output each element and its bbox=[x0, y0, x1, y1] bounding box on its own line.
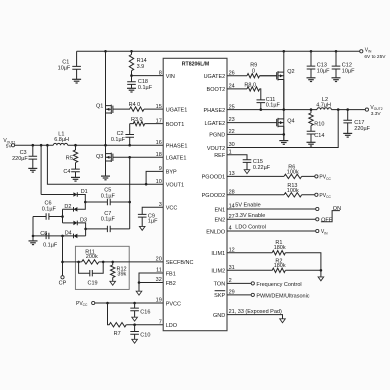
resistor R1 180k bbox=[227, 240, 321, 270]
svg-text:CP: CP bbox=[59, 281, 67, 287]
pin 16 PHASE1 label bbox=[156, 140, 188, 150]
inductor L1 6.8uH bbox=[53, 131, 69, 145]
capacitor C17 220uF bbox=[343, 110, 370, 134]
svg-text:LDO Control: LDO Control bbox=[235, 225, 266, 231]
resistor R8 0 bbox=[227, 83, 261, 100]
ground (C17) bbox=[343, 133, 352, 137]
capacitor C10 bbox=[130, 325, 150, 340]
svg-text:BOOT2: BOOT2 bbox=[207, 87, 226, 93]
node LDO-C10 bbox=[133, 323, 136, 326]
svg-text:Q2: Q2 bbox=[287, 69, 294, 75]
terminal VOUT1 5V bbox=[3, 138, 15, 150]
svg-text:VOUT1: VOUT1 bbox=[3, 138, 15, 144]
wire FB2 pin 32 bbox=[139, 283, 163, 292]
svg-text:3.3V Enable: 3.3V Enable bbox=[235, 213, 265, 219]
svg-text:LDO: LDO bbox=[166, 323, 178, 329]
svg-text:VCC: VCC bbox=[166, 206, 178, 212]
pin 4 ENLDO label bbox=[206, 226, 231, 236]
node VOUT2 pin tap bbox=[337, 108, 340, 111]
switch ON position bbox=[321, 206, 341, 222]
pin 2 TON label bbox=[214, 278, 232, 288]
wire VIN rail bbox=[77, 50, 361, 52]
svg-text:VIN: VIN bbox=[166, 74, 175, 80]
wire TON pin 2 bbox=[227, 282, 302, 288]
resistor R5 bbox=[66, 145, 78, 169]
svg-text:D4: D4 bbox=[65, 230, 72, 236]
node CP tap bbox=[61, 235, 64, 238]
ground (FB divider) bbox=[136, 291, 142, 295]
wire Q2 drain bbox=[283, 51, 285, 109]
svg-text:10µF: 10µF bbox=[342, 68, 355, 74]
node VOUT1 pin feed bbox=[46, 144, 49, 147]
diode D4 bbox=[33, 230, 86, 238]
wire SKP pin 29 bbox=[227, 293, 310, 299]
svg-text:PHASE2: PHASE2 bbox=[203, 108, 225, 114]
wire LGATE2 pin 23 bbox=[227, 122, 277, 124]
resistor R10 bbox=[309, 110, 325, 132]
wire Q1 drain from rail bbox=[105, 51, 107, 145]
svg-text:0.1µF: 0.1µF bbox=[111, 137, 126, 143]
svg-text:ILIM2: ILIM2 bbox=[211, 269, 225, 275]
svg-text:0.1µF: 0.1µF bbox=[101, 217, 116, 223]
terminal PVCC left bbox=[76, 301, 95, 307]
ground (C14) bbox=[307, 142, 316, 146]
pin 9 BYP label bbox=[159, 166, 177, 176]
svg-text:D2: D2 bbox=[64, 204, 71, 210]
node FB junction bbox=[138, 281, 141, 284]
terminal CP bbox=[59, 276, 67, 287]
svg-text:C10: C10 bbox=[140, 333, 150, 339]
node C6 tap bbox=[61, 215, 64, 218]
wire Q4 drain bbox=[283, 110, 285, 141]
wire CP vertical bbox=[62, 236, 64, 276]
svg-text:220µF: 220µF bbox=[354, 126, 370, 132]
pin 30 VOUT2 label bbox=[207, 142, 235, 152]
node PVCC-R7 bbox=[106, 302, 109, 305]
diode D1 bbox=[41, 189, 88, 202]
svg-text:0.1µF: 0.1µF bbox=[266, 102, 281, 108]
node PVCC-C16 bbox=[133, 302, 136, 305]
wire Q4 source bbox=[283, 126, 285, 140]
svg-text:D1: D1 bbox=[81, 189, 88, 195]
wire LGATE1 to C5/C7 bbox=[129, 157, 131, 229]
svg-text:UGATE2: UGATE2 bbox=[204, 74, 226, 80]
ground (C12) bbox=[332, 78, 341, 82]
node ILIM2 junction bbox=[320, 269, 323, 272]
svg-text:PVCC: PVCC bbox=[319, 175, 331, 181]
capacitor C11 0.1uF bbox=[257, 97, 281, 110]
svg-text:0.1µF: 0.1µF bbox=[42, 206, 57, 212]
capacitor C14 bbox=[307, 131, 325, 142]
wire node B vertical bbox=[62, 209, 64, 223]
pin 27 EN2 label bbox=[214, 214, 234, 224]
resistor R2 180k bbox=[227, 258, 321, 277]
ground (C9) bbox=[139, 226, 145, 230]
wire Q1 source to phase bbox=[105, 113, 107, 145]
terminal PVCC (PGOOD2) bbox=[315, 193, 332, 199]
svg-text:7: 7 bbox=[159, 319, 162, 325]
svg-text:FB1: FB1 bbox=[166, 271, 176, 277]
inductor L2 4.7uH bbox=[316, 97, 331, 110]
svg-text:OFF: OFF bbox=[321, 218, 333, 224]
svg-text:11: 11 bbox=[156, 268, 162, 274]
wire VOUT2 pin 30 bbox=[227, 110, 338, 148]
svg-text:R3 0: R3 0 bbox=[131, 117, 143, 123]
svg-text:R4 0: R4 0 bbox=[129, 102, 141, 108]
ground (C4) bbox=[71, 177, 80, 181]
node C3 bbox=[32, 144, 35, 147]
capacitor C12 10uF bbox=[332, 51, 355, 78]
svg-text:10: 10 bbox=[156, 179, 162, 185]
svg-text:32: 32 bbox=[156, 277, 162, 283]
svg-text:PWM/DEM/Ultrasonic: PWM/DEM/Ultrasonic bbox=[256, 293, 309, 299]
pin 1 REF label bbox=[214, 150, 231, 160]
capacitor C4 bbox=[63, 169, 79, 178]
pin 22 PGND label bbox=[209, 129, 234, 139]
capacitor C6 0.1uF bbox=[33, 201, 63, 220]
svg-text:Q1: Q1 bbox=[96, 104, 103, 110]
node rail-Q1 bbox=[104, 50, 107, 53]
wire ENLDO pin 4 bbox=[227, 225, 328, 236]
node rail-C12 bbox=[335, 50, 338, 53]
svg-text:3.3V: 3.3V bbox=[371, 111, 382, 117]
capacitor C1 bbox=[58, 51, 81, 79]
wire C6-C8 left vertical bbox=[32, 217, 34, 241]
ground (C15) bbox=[244, 170, 250, 174]
node C5-LGATE vertical bbox=[128, 201, 131, 204]
node R5 bbox=[74, 144, 77, 147]
svg-text:8: 8 bbox=[159, 70, 162, 76]
transistor Q1 bbox=[96, 104, 113, 115]
pin 7 LDO label bbox=[159, 319, 178, 329]
svg-text:PVCC: PVCC bbox=[76, 301, 88, 307]
ground (GND pin) bbox=[280, 319, 286, 323]
capacitor C19 bbox=[79, 262, 104, 286]
svg-text:BOOT1: BOOT1 bbox=[166, 122, 185, 128]
svg-text:3.9: 3.9 bbox=[137, 64, 145, 70]
capacitor C13 10uF bbox=[307, 51, 330, 78]
svg-text:D3: D3 bbox=[80, 218, 87, 224]
svg-text:180k: 180k bbox=[274, 245, 286, 251]
wire GND pin 21,33 bbox=[227, 315, 283, 319]
svg-text:18: 18 bbox=[156, 152, 162, 158]
svg-text:5V Enable: 5V Enable bbox=[235, 203, 260, 209]
node rail-C13 bbox=[310, 50, 313, 53]
svg-text:20: 20 bbox=[156, 257, 162, 263]
pin 8 VIN label bbox=[159, 70, 175, 80]
node rail-Q2 bbox=[283, 50, 286, 53]
svg-text:0.1µF: 0.1µF bbox=[101, 194, 116, 200]
wire VCC pin 3 bbox=[142, 207, 163, 214]
node rail-R14 bbox=[130, 50, 133, 53]
svg-text:0: 0 bbox=[252, 69, 255, 75]
svg-text:0.1µF: 0.1µF bbox=[138, 85, 153, 91]
transistor Q3 bbox=[96, 153, 113, 162]
wire Q2 source to phase2 bbox=[283, 80, 285, 110]
svg-text:4.7µH: 4.7µH bbox=[316, 103, 331, 109]
wire PGND pin 22 bbox=[227, 133, 284, 135]
svg-text:R7: R7 bbox=[114, 331, 121, 337]
resistor R12 39k bbox=[111, 262, 127, 281]
pin 23 LGATE2 label bbox=[205, 117, 235, 127]
svg-text:C8: C8 bbox=[40, 231, 47, 237]
ground (C3) bbox=[28, 168, 37, 172]
pin 12 ILIM1 label bbox=[211, 247, 234, 257]
op-amp U1 RT8206L/M IC body bbox=[163, 58, 227, 330]
svg-text:39k: 39k bbox=[117, 272, 126, 278]
svg-text:200k: 200k bbox=[86, 254, 98, 260]
pin 31 ILIM2 label bbox=[211, 265, 234, 275]
svg-text:LGATE2: LGATE2 bbox=[205, 121, 226, 127]
svg-text:9: 9 bbox=[159, 166, 162, 172]
svg-text:C14: C14 bbox=[314, 133, 324, 139]
ground (ILIM) bbox=[318, 277, 324, 281]
pin 14 EN1 label bbox=[214, 204, 234, 214]
pin 26 UGATE2 label bbox=[204, 70, 235, 80]
svg-text:10µF: 10µF bbox=[317, 68, 330, 74]
svg-text:6V to 25V: 6V to 25V bbox=[364, 54, 386, 60]
pin 15 UGATE1 label bbox=[156, 104, 188, 114]
wire FB1 pin 11 bbox=[139, 273, 163, 283]
node D1 feed bbox=[40, 144, 43, 147]
svg-text:SECFB/NC: SECFB/NC bbox=[166, 260, 194, 266]
svg-text:PGND: PGND bbox=[209, 133, 225, 139]
capacitor C7 0.1uF bbox=[86, 211, 130, 232]
wire Q3 source to ground bbox=[105, 161, 107, 176]
pin 3 VCC label bbox=[159, 202, 178, 212]
pin 17 BOOT1 label bbox=[156, 118, 185, 128]
pin 10 VOUT1 label bbox=[156, 179, 184, 189]
pin 24 BOOT2 label bbox=[207, 84, 235, 94]
svg-text:6.8µH: 6.8µH bbox=[54, 137, 69, 143]
resistor R7 bbox=[108, 303, 164, 337]
svg-text:17: 17 bbox=[156, 118, 162, 124]
svg-text:VIN: VIN bbox=[365, 47, 372, 53]
ground (C10) bbox=[132, 339, 138, 343]
capacitor C3 220uF bbox=[12, 145, 37, 168]
resistor R3 0 bbox=[130, 117, 164, 126]
diode D2 bbox=[63, 202, 86, 212]
wire BYP pin 9 bbox=[146, 171, 163, 184]
node C19 left bbox=[77, 261, 80, 264]
wire EN1 pin 14 bbox=[227, 203, 319, 211]
node C5 tap bbox=[84, 201, 87, 204]
pin 25 PHASE2 label bbox=[203, 104, 234, 114]
node BYP-VOUT1 bbox=[145, 183, 148, 186]
svg-text:Frequency Control: Frequency Control bbox=[256, 282, 301, 288]
capacitor C18 0.1uF bbox=[127, 76, 153, 92]
svg-text:5V: 5V bbox=[6, 144, 13, 150]
capacitor C2 0.1uF bbox=[111, 124, 134, 146]
resistor R11 200k bbox=[63, 249, 164, 264]
node C7 tap bbox=[84, 228, 87, 231]
svg-text:R5: R5 bbox=[66, 156, 73, 162]
node C17 tap bbox=[346, 108, 349, 111]
svg-text:RT8206L/M: RT8206L/M bbox=[182, 62, 209, 68]
svg-text:REF: REF bbox=[214, 153, 226, 159]
terminal PVCC (PGOOD1) bbox=[315, 175, 332, 181]
svg-text:19: 19 bbox=[156, 298, 162, 304]
svg-text:3: 3 bbox=[159, 202, 162, 208]
node C2-phase bbox=[128, 144, 131, 147]
wire PVCC pin 19 bbox=[95, 302, 163, 304]
wire Q3 drain bbox=[105, 145, 107, 176]
capacitor C16 bbox=[130, 303, 150, 317]
pin 32 FB2 label bbox=[156, 277, 176, 287]
svg-text:15: 15 bbox=[156, 104, 162, 110]
capacitor C9 1uF bbox=[138, 213, 158, 226]
node C19 right bbox=[102, 261, 105, 264]
pin 29 SKP label bbox=[214, 290, 235, 300]
svg-text:16: 16 bbox=[156, 140, 162, 146]
svg-text:VOUT2: VOUT2 bbox=[370, 105, 382, 111]
ground (C16) bbox=[132, 317, 138, 321]
resistor R9 0 bbox=[227, 63, 277, 78]
wire LGATE1 bbox=[113, 156, 163, 158]
svg-text:180k: 180k bbox=[274, 263, 286, 269]
wire PHASE1 line bbox=[15, 144, 164, 146]
capacitor C15 0.22uF bbox=[227, 155, 271, 171]
svg-text:TON: TON bbox=[214, 282, 226, 288]
svg-text:SKP: SKP bbox=[214, 293, 225, 299]
svg-text:LGATE1: LGATE1 bbox=[166, 156, 187, 162]
wire VIN pin 8 bbox=[132, 75, 164, 77]
pin 11 FB1 label bbox=[156, 268, 176, 278]
svg-text:100k: 100k bbox=[287, 169, 299, 175]
svg-text:1µF: 1µF bbox=[148, 219, 158, 225]
node phase-Q1Q3 bbox=[104, 144, 107, 147]
svg-text:ENLDO: ENLDO bbox=[206, 229, 226, 235]
pin 13 PGOOD1 label bbox=[202, 171, 235, 181]
node PGND junction bbox=[283, 133, 286, 136]
svg-text:10µF: 10µF bbox=[58, 66, 71, 72]
svg-text:0.1µF: 0.1µF bbox=[43, 243, 58, 249]
wire rail to D1 anode bbox=[40, 145, 42, 194]
svg-text:Q3: Q3 bbox=[96, 154, 103, 160]
svg-text:PVCC: PVCC bbox=[166, 301, 181, 307]
node C6/C8 left bbox=[32, 235, 35, 238]
svg-text:VOUT2: VOUT2 bbox=[207, 146, 225, 152]
resistor R4 0 bbox=[113, 102, 163, 111]
resistor R6 100k bbox=[227, 165, 315, 179]
pin 18 LGATE1 label bbox=[156, 152, 187, 162]
transistor Q2 bbox=[260, 69, 295, 81]
svg-text:BYP: BYP bbox=[166, 170, 177, 176]
svg-text:PGOOD1: PGOOD1 bbox=[202, 175, 226, 181]
svg-text:PHASE1: PHASE1 bbox=[166, 144, 188, 150]
node R11 wire bbox=[61, 261, 64, 264]
svg-text:C19: C19 bbox=[88, 280, 98, 286]
svg-text:R10: R10 bbox=[314, 122, 324, 128]
svg-text:C4: C4 bbox=[63, 169, 70, 175]
svg-text:ILIM1: ILIM1 bbox=[211, 251, 225, 257]
pin 19 PVCC label bbox=[156, 298, 181, 308]
svg-text:UGATE1: UGATE1 bbox=[166, 107, 188, 113]
svg-text:FB2: FB2 bbox=[166, 281, 176, 287]
resistor R14 3.9 bbox=[129, 51, 146, 75]
wire PHASE2 line bbox=[227, 109, 365, 111]
ground (Q3) bbox=[101, 176, 110, 180]
ground (C13) bbox=[307, 78, 316, 82]
ground (C18) bbox=[127, 88, 136, 92]
svg-text:VOUT1: VOUT1 bbox=[166, 183, 184, 189]
wire VOUT1 to pin 10 bbox=[47, 145, 163, 184]
node LGATE1 tap bbox=[128, 156, 131, 159]
svg-text:100k: 100k bbox=[287, 188, 299, 194]
node R12 top bbox=[111, 261, 114, 264]
pin 21,33 GND label bbox=[213, 309, 282, 319]
capacitor C5 0.1uF bbox=[85, 188, 129, 206]
ground (Q4/PGND) bbox=[279, 141, 288, 145]
svg-text:C16: C16 bbox=[140, 309, 150, 315]
ground (C6/C8) bbox=[29, 241, 38, 245]
transistor Q4 bbox=[277, 118, 295, 127]
terminal VOUT2 3.3V bbox=[365, 105, 382, 117]
pin 28 PGOOD2 label bbox=[202, 190, 235, 200]
svg-text:PGOOD2: PGOOD2 bbox=[202, 193, 226, 199]
svg-text:0.22µF: 0.22µF bbox=[253, 165, 271, 171]
resistor R13 100k bbox=[227, 183, 315, 197]
node VIN pin junction bbox=[130, 74, 133, 77]
svg-text:Q4: Q4 bbox=[287, 118, 294, 124]
svg-text:220µF: 220µF bbox=[12, 156, 28, 162]
svg-text:PVCC: PVCC bbox=[319, 193, 331, 199]
box R11/R12 network bbox=[75, 246, 129, 289]
svg-text:VIN: VIN bbox=[321, 229, 328, 235]
svg-text:GND: GND bbox=[213, 313, 225, 319]
svg-text:EN1: EN1 bbox=[214, 207, 225, 213]
svg-text:EN2: EN2 bbox=[214, 218, 225, 224]
node C11-phase2 bbox=[260, 108, 263, 111]
ground (C1) bbox=[72, 79, 81, 83]
capacitor C8 0.1uF bbox=[40, 231, 58, 249]
node R10 tap bbox=[310, 108, 313, 111]
pin 20 SECFB/NC label bbox=[156, 257, 194, 267]
wire EN2 pin 27 bbox=[227, 213, 333, 224]
ground (R12) bbox=[110, 281, 116, 285]
svg-text:R8 0: R8 0 bbox=[244, 83, 256, 89]
node Q2Q4-phase2 bbox=[283, 108, 286, 111]
terminal VIN bbox=[360, 47, 387, 60]
diode D3 bbox=[63, 218, 88, 236]
